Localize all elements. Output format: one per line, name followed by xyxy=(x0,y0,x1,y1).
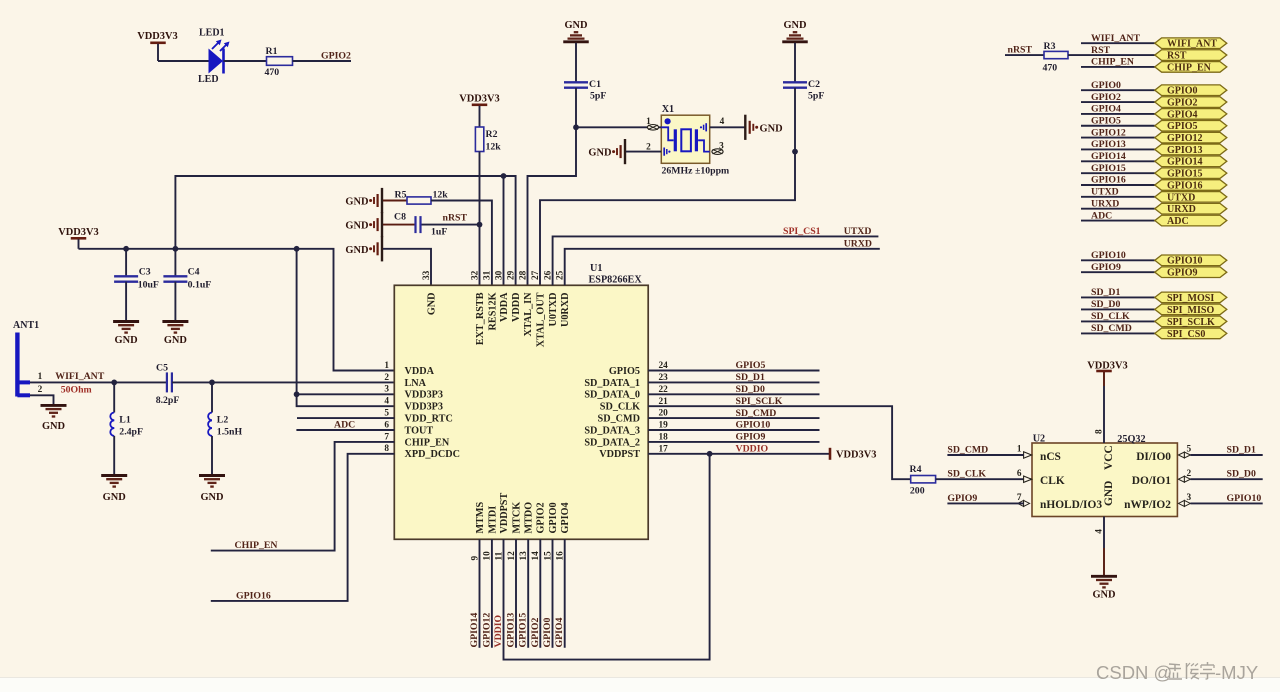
svg-text:URXD: URXD xyxy=(1091,198,1119,209)
capacitor C8 1uF xyxy=(394,212,447,238)
junction VDDIO xyxy=(707,451,713,457)
wire VDD3V3 rail xyxy=(79,249,395,371)
ground GND at pin 33 xyxy=(345,236,382,261)
wire GPIO2 to port xyxy=(1081,101,1155,103)
net label GPIO9 (U2) xyxy=(947,493,977,504)
net label GPIO13 (vertical) xyxy=(506,613,517,648)
net label SD_D0 (U2) xyxy=(1227,469,1256,480)
svg-text:VDD3V3: VDD3V3 xyxy=(137,31,177,42)
wire pin 15 GPIO0 xyxy=(552,539,554,648)
svg-text:RES12K: RES12K xyxy=(487,292,498,330)
svg-text:1uF: 1uF xyxy=(431,227,447,238)
wire X1 pin4 to GND xyxy=(710,126,746,128)
svg-text:GPIO14: GPIO14 xyxy=(1167,157,1203,168)
net label SD_CMD xyxy=(947,444,988,455)
svg-text:VDD3P3: VDD3P3 xyxy=(405,390,443,401)
wire VDDPST pin 17 xyxy=(648,453,829,455)
wire VDDPST pin 11 to VDDIO node xyxy=(504,454,710,660)
svg-text:CHIP_EN: CHIP_EN xyxy=(235,540,278,551)
power flag VDD3V3 (R2) xyxy=(459,94,499,128)
wire GPIO4 to port xyxy=(1081,113,1155,115)
svg-text:470: 470 xyxy=(265,67,280,78)
wire pin 10 GPIO12 xyxy=(491,539,493,648)
port SPI_MISO xyxy=(1155,304,1227,316)
wire UTXD to port xyxy=(1081,196,1155,198)
wire C2 to X1 pin3 node xyxy=(794,88,796,152)
ground GND above C2 xyxy=(782,20,808,42)
net label SD_D1 (U2) xyxy=(1227,444,1256,455)
wire ADC to port xyxy=(1081,220,1155,222)
svg-text:GPIO2: GPIO2 xyxy=(1167,97,1198,108)
svg-text:GPIO5: GPIO5 xyxy=(609,366,640,377)
pin 30 VDDA of U1 xyxy=(494,270,510,322)
svg-text:GND: GND xyxy=(564,20,587,31)
svg-text:VDDPST: VDDPST xyxy=(599,449,640,460)
pin 32 EXT_RSTB of U1 xyxy=(470,270,486,345)
svg-text:33: 33 xyxy=(422,270,432,280)
net label GPIO15 (vertical) xyxy=(518,613,529,648)
resistor R2 12k xyxy=(475,127,501,153)
pin 8 VCC of U2 xyxy=(1095,429,1115,470)
junction VDD to pins 3-4 xyxy=(294,246,300,252)
wire pin 20 SD_CMD xyxy=(648,417,819,419)
wire pin 18 GPIO9 xyxy=(648,441,819,443)
svg-text:SD_D1: SD_D1 xyxy=(1091,287,1120,298)
pin 6 CLK of U2 xyxy=(1017,469,1065,487)
wire U2 GND pin 4 xyxy=(1103,517,1105,577)
pin 8 XPD_DCDC of U1 xyxy=(384,444,460,460)
svg-text:XTAL_OUT: XTAL_OUT xyxy=(535,292,546,347)
svg-text:4: 4 xyxy=(720,117,725,127)
net label SD_D0 xyxy=(736,384,765,395)
svg-text:1: 1 xyxy=(384,361,389,371)
ground GND below C3 xyxy=(113,282,139,346)
wire to pin 30 xyxy=(503,176,505,285)
wire GPIO15 to port xyxy=(1081,172,1155,174)
wire X1 pin2 xyxy=(626,151,661,153)
svg-text:VDD3V3: VDD3V3 xyxy=(459,94,499,105)
svg-text:SPI_MISO: SPI_MISO xyxy=(1167,305,1214,316)
svg-text:XTAL_IN: XTAL_IN xyxy=(523,292,534,337)
svg-text:GPIO9: GPIO9 xyxy=(1091,262,1121,273)
svg-text:GND: GND xyxy=(115,335,138,346)
net label GPIO14 xyxy=(1091,151,1126,162)
svg-text:4: 4 xyxy=(384,397,389,407)
svg-text:DI/IO0: DI/IO0 xyxy=(1136,451,1171,463)
wire pin 9 GPIO14 xyxy=(479,539,481,648)
svg-text:C4: C4 xyxy=(188,266,200,277)
net label CHIP_EN xyxy=(1091,57,1134,68)
ground GND below L1 xyxy=(101,476,127,504)
wire GND to C2 xyxy=(794,43,796,83)
svg-text:C2: C2 xyxy=(808,79,820,90)
svg-text:nHOLD/IO3: nHOLD/IO3 xyxy=(1040,499,1102,511)
pin 27 XTAL_OUT of U1 xyxy=(531,270,547,347)
wire SD_CLK to port SPI_SCLK xyxy=(1081,320,1155,322)
svg-text:GND: GND xyxy=(1103,481,1115,506)
pin 4 VDD3P3 of U1 xyxy=(384,397,443,413)
svg-text:SD_CMD: SD_CMD xyxy=(736,408,777,419)
pin 2 DO/IO1 of U2 xyxy=(1132,469,1192,487)
pin 31 RES12K of U1 xyxy=(483,270,499,330)
svg-text:GPIO15: GPIO15 xyxy=(1091,163,1126,174)
pin 3 nWP/IO2 of U2 xyxy=(1124,493,1191,511)
port GPIO14 xyxy=(1155,156,1227,168)
svg-text:SD_CLK: SD_CLK xyxy=(600,402,640,413)
svg-text:SD_D1: SD_D1 xyxy=(1227,444,1256,455)
ground GND at X1 pin2 xyxy=(588,139,625,164)
wire GPIO14 to port xyxy=(1081,160,1155,162)
net label GPIO10 xyxy=(736,420,771,431)
wire CHIP_EN pin 7 xyxy=(211,442,394,551)
svg-text:URXD: URXD xyxy=(1167,204,1196,215)
net label VDDIO xyxy=(736,444,769,455)
svg-text:CHIP_EN: CHIP_EN xyxy=(1091,57,1134,68)
svg-text:nCS: nCS xyxy=(1040,451,1061,463)
svg-text:VDDPST: VDDPST xyxy=(499,493,510,534)
svg-text:GPIO16: GPIO16 xyxy=(236,590,271,601)
power flag VDD3V3 above U2 xyxy=(1087,361,1127,443)
wire R5 to RES12K pin 31 xyxy=(431,201,492,286)
svg-text:GPIO16: GPIO16 xyxy=(1167,180,1203,191)
svg-text:SPI_CS0: SPI_CS0 xyxy=(1167,329,1205,340)
pin 18 SD_DATA_2 of U1 xyxy=(584,433,668,449)
wire C5 to LNA pin 2 xyxy=(172,381,394,383)
wire GPIO13 to port xyxy=(1081,148,1155,150)
pin 14 GPIO2 of U1 xyxy=(531,502,547,560)
wire TOUT pin 6 ADC xyxy=(296,429,394,431)
pin 4 GND of U2 xyxy=(1095,481,1115,534)
port RST xyxy=(1155,50,1227,62)
wire pin 22 SD_D0 xyxy=(648,393,819,395)
pin 11 VDDPST of U1 xyxy=(494,493,510,561)
net label WIFI_ANT xyxy=(1091,33,1140,44)
svg-text:DO/IO1: DO/IO1 xyxy=(1132,475,1172,487)
port GPIO16 xyxy=(1155,180,1227,192)
svg-text:GPIO12: GPIO12 xyxy=(1167,133,1203,144)
capacitor C3 10uF xyxy=(114,249,159,291)
port SPI_SCLK xyxy=(1155,316,1227,328)
pin 7 CHIP_EN of U1 xyxy=(384,432,450,448)
wire CHIP_EN to port xyxy=(1081,66,1155,68)
svg-text:UTXD: UTXD xyxy=(1167,192,1195,203)
svg-text:MTDO: MTDO xyxy=(524,502,535,534)
net label VDDIO (vertical) xyxy=(493,614,504,647)
bottom strip xyxy=(0,678,1280,692)
svg-text:L2: L2 xyxy=(217,415,229,426)
svg-text:WIFI_ANT: WIFI_ANT xyxy=(55,371,104,382)
svg-text:VDDA: VDDA xyxy=(499,292,510,322)
svg-text:GPIO5: GPIO5 xyxy=(1091,115,1121,126)
pin 12 MTCK of U1 xyxy=(507,502,523,561)
junction L2 xyxy=(209,380,215,386)
svg-text:RST: RST xyxy=(1167,50,1187,61)
svg-text:VDDIO: VDDIO xyxy=(736,444,769,455)
svg-text:GPIO0: GPIO0 xyxy=(542,617,553,647)
svg-text:VDDA: VDDA xyxy=(405,366,435,377)
ground GND above C1 xyxy=(563,20,589,42)
wire U2 GPIO9 xyxy=(947,502,1023,504)
watermark CSDN xyxy=(1096,662,1258,683)
net label SD_CLK xyxy=(947,469,986,480)
svg-text:2: 2 xyxy=(646,143,651,153)
wire VDD3V3 to LED anode xyxy=(158,60,209,62)
net label GPIO5 xyxy=(736,360,766,371)
svg-text:VDD3V3: VDD3V3 xyxy=(836,449,876,460)
svg-text:GPIO4: GPIO4 xyxy=(560,502,571,533)
svg-text:GPIO9: GPIO9 xyxy=(947,493,977,504)
svg-text:SD_CLK: SD_CLK xyxy=(947,469,986,480)
power flag VDD3V3 (left rail) xyxy=(58,227,98,249)
svg-text:2: 2 xyxy=(38,385,43,395)
ground GND below ANT1 xyxy=(41,405,67,432)
pin 19 SD_DATA_3 of U1 xyxy=(584,421,668,437)
svg-text:12k: 12k xyxy=(433,190,449,201)
svg-text:RST: RST xyxy=(1091,45,1111,56)
pin number 1 of ANT1 xyxy=(38,372,43,382)
svg-text:GND: GND xyxy=(345,197,368,208)
wire GND to R5 xyxy=(383,200,407,202)
port SPI_MOSI xyxy=(1155,292,1227,304)
net label GPIO5 xyxy=(1091,115,1121,126)
svg-text:GPIO0: GPIO0 xyxy=(1167,86,1198,97)
net label SPI_CS1 xyxy=(783,226,821,237)
wire VDD to VDDA/VDDD pins 30,29 xyxy=(175,176,515,285)
svg-text:GPIO13: GPIO13 xyxy=(506,613,517,648)
svg-text:C8: C8 xyxy=(394,212,406,223)
net label ADC xyxy=(1091,210,1112,221)
svg-text:GND: GND xyxy=(345,221,368,232)
port SPI_CS0 xyxy=(1155,328,1227,340)
svg-text:GND: GND xyxy=(1092,590,1115,601)
pin 1 nCS of U2 xyxy=(1017,445,1061,463)
wire to pin 3 xyxy=(297,393,395,395)
svg-text:URXD: URXD xyxy=(844,239,872,250)
wire pin 24 GPIO5 xyxy=(648,370,819,372)
svg-text:-MJY: -MJY xyxy=(1215,662,1258,683)
wire SD_D1 to port SPI_MOSI xyxy=(1081,296,1155,298)
wire VDD_RTC pin 5 xyxy=(297,417,394,419)
pin 16 GPIO4 of U1 xyxy=(556,502,572,560)
pin number 3 of X1 xyxy=(712,141,724,154)
net label GPIO13 xyxy=(1091,139,1126,150)
svg-text:CLK: CLK xyxy=(1040,475,1065,487)
net label CHIP_EN xyxy=(235,540,278,551)
port URXD xyxy=(1155,203,1227,215)
transistor U2 25Q32 body xyxy=(1032,433,1177,516)
svg-text:VCC: VCC xyxy=(1103,445,1115,470)
pin 29 VDDD of U1 xyxy=(506,270,522,322)
svg-text:1: 1 xyxy=(38,372,43,382)
svg-text:C3: C3 xyxy=(139,266,151,277)
ground GND below C4 xyxy=(162,282,188,346)
svg-text:MTDI: MTDI xyxy=(487,506,498,534)
net label GPIO10 (U2) xyxy=(1227,493,1262,504)
pin 33 GND of U1 xyxy=(422,270,438,315)
port CHIP_EN xyxy=(1155,62,1227,74)
wire pin 13 GPIO15 xyxy=(527,539,529,648)
svg-text:SD_DATA_2: SD_DATA_2 xyxy=(584,437,640,448)
svg-text:GND: GND xyxy=(345,245,368,256)
port GPIO13 xyxy=(1155,144,1227,156)
port GPIO9 xyxy=(1155,267,1227,279)
svg-text:R1: R1 xyxy=(266,46,278,57)
wire XPD_DCDC pin 8 GPIO16 xyxy=(211,454,394,601)
pin 24 GPIO5 of U1 xyxy=(609,361,668,377)
net label UTXD xyxy=(1091,187,1119,198)
net label SD_CMD xyxy=(1091,323,1132,334)
wire SPI_SCLK pin 21 to R4 xyxy=(648,406,911,479)
wire GPIO9 to port xyxy=(1081,271,1155,273)
svg-text:GPIO5: GPIO5 xyxy=(1167,121,1198,132)
net label SD_CLK xyxy=(1091,311,1130,322)
svg-text:6: 6 xyxy=(1017,469,1022,479)
svg-text:GPIO10: GPIO10 xyxy=(1227,493,1262,504)
svg-text:GPIO13: GPIO13 xyxy=(1091,139,1126,150)
svg-text:26MHz ±10ppm: 26MHz ±10ppm xyxy=(662,166,730,177)
junction C4 xyxy=(173,246,179,252)
ground GND below L2 xyxy=(199,476,225,504)
net label GPIO12 (vertical) xyxy=(481,613,492,648)
svg-text:UTXD: UTXD xyxy=(844,226,872,237)
wire GPIO16 to port xyxy=(1081,184,1155,186)
svg-text:VDDIO: VDDIO xyxy=(493,614,504,647)
svg-text:GPIO10: GPIO10 xyxy=(736,420,771,431)
svg-text:EXT_RSTB: EXT_RSTB xyxy=(475,292,486,345)
capacitor C1 5pF xyxy=(564,79,606,102)
junction C3 xyxy=(123,246,129,252)
svg-text:SD_DATA_3: SD_DATA_3 xyxy=(584,425,640,436)
wire ANT1 pin1 WIFI_ANT xyxy=(30,381,167,383)
net label GPIO0 (vertical) xyxy=(542,617,553,647)
net label GPIO0 xyxy=(1091,80,1121,91)
svg-text:SD_CMD: SD_CMD xyxy=(1091,323,1132,334)
svg-text:GPIO0: GPIO0 xyxy=(548,502,559,533)
svg-text:TOUT: TOUT xyxy=(405,425,434,436)
wire pin 23 SD_D1 xyxy=(648,381,819,383)
svg-text:GPIO10: GPIO10 xyxy=(1167,256,1203,267)
svg-text:GPIO0: GPIO0 xyxy=(1091,80,1121,91)
svg-text:30: 30 xyxy=(494,270,504,280)
wire VDD to VDD3P3 pins 3,4 xyxy=(297,249,395,406)
svg-text:VDD_RTC: VDD_RTC xyxy=(405,414,453,425)
svg-text:7: 7 xyxy=(384,432,389,442)
svg-text:R5: R5 xyxy=(395,190,407,201)
svg-text:12k: 12k xyxy=(486,142,502,153)
svg-text:GPIO2: GPIO2 xyxy=(530,617,541,647)
port GPIO2 xyxy=(1155,97,1227,109)
wire U2 DI/IO0 SD_D1 xyxy=(1190,454,1262,456)
pin 26 U0TXD of U1 xyxy=(543,270,559,326)
svg-text:nWP/IO2: nWP/IO2 xyxy=(1124,499,1171,511)
capacitor C4 0.1uF xyxy=(163,249,211,291)
wire U0RXD pin 25 xyxy=(565,249,880,285)
svg-text:XPD_DCDC: XPD_DCDC xyxy=(405,449,460,460)
pin number 2 of ANT1 xyxy=(38,385,43,395)
svg-text:GPIO15: GPIO15 xyxy=(518,613,529,648)
pin 7 nHOLD/IO3 of U2 xyxy=(1017,493,1102,511)
pin 6 TOUT of U1 xyxy=(384,420,433,436)
pin 28 XTAL_IN of U1 xyxy=(518,270,534,336)
net label SPI_SCLK xyxy=(736,396,783,407)
svg-text:5: 5 xyxy=(384,409,389,419)
ground GND at X1 pin4 xyxy=(745,115,782,140)
svg-text:GPIO10: GPIO10 xyxy=(1091,250,1126,261)
svg-text:U0RXD: U0RXD xyxy=(560,293,571,328)
port WIFI_ANT xyxy=(1155,38,1227,50)
net label GPIO15 xyxy=(1091,163,1126,174)
svg-text:SPI_MOSI: SPI_MOSI xyxy=(1167,293,1214,304)
svg-text:VDD3V3: VDD3V3 xyxy=(58,227,98,238)
svg-text:GPIO14: GPIO14 xyxy=(469,613,480,648)
pin 9 MTMS of U1 xyxy=(470,501,486,560)
net label GPIO2 (vertical) xyxy=(530,617,541,647)
port GPIO15 xyxy=(1155,168,1227,180)
svg-text:UTXD: UTXD xyxy=(1091,187,1119,198)
junction pin 30 xyxy=(501,173,507,179)
pin 10 MTDI of U1 xyxy=(483,506,499,561)
svg-text:GPIO9: GPIO9 xyxy=(736,432,766,443)
svg-text:GND: GND xyxy=(103,492,126,503)
svg-text:LED1: LED1 xyxy=(199,28,225,39)
svg-text:SD_D1: SD_D1 xyxy=(736,372,765,383)
wire SD_D0 to port SPI_MISO xyxy=(1081,308,1155,310)
svg-text:GPIO4: GPIO4 xyxy=(1167,109,1198,120)
svg-text:R2: R2 xyxy=(486,129,498,140)
svg-text:470: 470 xyxy=(1043,63,1058,74)
power flag VDD3V3 (LED branch) xyxy=(137,31,177,61)
svg-text:CHIP_EN: CHIP_EN xyxy=(405,437,450,448)
net label UTXD xyxy=(844,226,872,237)
label 50Ohm xyxy=(61,384,92,395)
svg-text:50Ohm: 50Ohm xyxy=(61,384,92,395)
antenna ANT1 xyxy=(13,320,39,397)
port GPIO10 xyxy=(1155,255,1227,267)
wire GPIO10 to port xyxy=(1081,259,1155,261)
svg-text:28: 28 xyxy=(518,270,528,280)
junction L1 xyxy=(111,380,117,386)
svg-text:SD_DATA_1: SD_DATA_1 xyxy=(584,378,640,389)
net label nRST xyxy=(443,213,468,224)
svg-text:GND: GND xyxy=(783,20,806,31)
svg-text:29: 29 xyxy=(506,270,516,280)
svg-text:ADC: ADC xyxy=(1167,216,1189,227)
net label nRST (R3) xyxy=(1008,44,1033,55)
svg-text:32: 32 xyxy=(470,270,480,280)
svg-text:GND: GND xyxy=(760,123,783,134)
net label SD_CMD xyxy=(736,408,777,419)
LED LED1 xyxy=(198,28,230,86)
svg-text:U1: U1 xyxy=(590,263,602,274)
svg-text:GPIO9: GPIO9 xyxy=(1167,268,1198,279)
net label GPIO16 xyxy=(236,590,271,601)
wire SD_CMD to port SPI_CS0 xyxy=(1081,332,1155,334)
svg-text:SD_DATA_0: SD_DATA_0 xyxy=(584,390,640,401)
port GPIO4 xyxy=(1155,109,1227,121)
svg-text:GPIO12: GPIO12 xyxy=(1091,127,1126,138)
svg-text:nRST: nRST xyxy=(443,213,468,224)
svg-text:8: 8 xyxy=(384,444,389,454)
net label GPIO2 xyxy=(1091,92,1121,103)
svg-text:L1: L1 xyxy=(119,415,131,426)
net label GPIO9 xyxy=(736,432,766,443)
port UTXD xyxy=(1155,192,1227,204)
svg-text:10uF: 10uF xyxy=(138,280,159,291)
net label GPIO4 (vertical) xyxy=(554,617,565,647)
svg-text:nRST: nRST xyxy=(1008,44,1033,55)
net label SD_D0 xyxy=(1091,299,1120,310)
wire pin 14 GPIO2 xyxy=(539,539,541,648)
